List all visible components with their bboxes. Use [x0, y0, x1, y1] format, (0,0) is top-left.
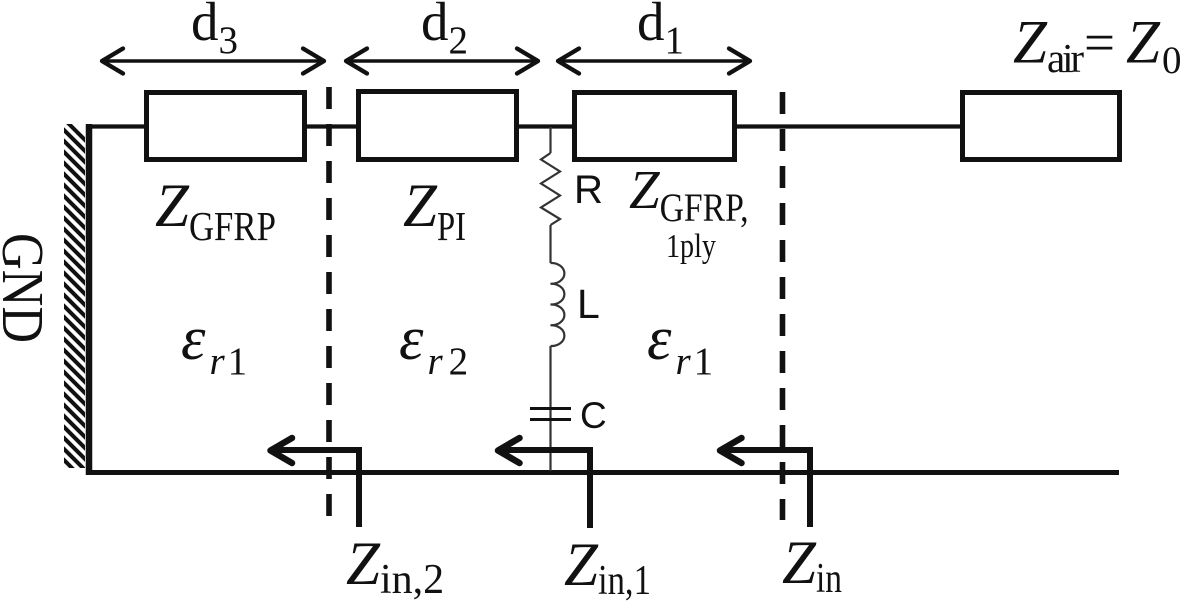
svg-text:Z: Z — [1013, 10, 1048, 77]
capacitor C plates — [530, 407, 571, 410]
resistor R — [541, 153, 560, 225]
wire R to L — [549, 225, 551, 263]
wire left vertical (wall face) — [86, 124, 93, 475]
dimension arrow d1 — [558, 49, 750, 74]
svg-text:1ply: 1ply — [666, 228, 716, 265]
svg-text:L: L — [577, 281, 600, 327]
svg-text:=: = — [1084, 12, 1115, 73]
impedance arrow hook Z_in,1 — [498, 438, 590, 528]
svg-text:0: 0 — [1162, 39, 1181, 82]
ground wall GND hatch — [50, 105, 100, 496]
dashed boundary line 2 — [780, 92, 786, 520]
block Z_PI (transmission-line section 2) — [359, 92, 517, 160]
wire L to C to bottom — [549, 346, 551, 471]
svg-text:Z: Z — [1126, 10, 1161, 77]
dimension arrow d3 — [102, 49, 324, 74]
dimension arrow d2 — [346, 49, 538, 74]
block Z_air — [963, 93, 1120, 160]
inductor L — [551, 263, 565, 346]
wire RLC branch top stub — [549, 127, 551, 153]
impedance arrow hook Z_in,2 — [271, 438, 360, 527]
wire top horizontal — [87, 124, 960, 128]
block Z_GFRP (transmission-line section 3) — [147, 93, 305, 160]
dashed boundary line 1 — [326, 87, 332, 518]
svg-text:R: R — [574, 168, 603, 212]
block Z_GFRP,1ply (transmission-line section 1) — [575, 93, 735, 160]
svg-text:air: air — [1047, 35, 1084, 81]
svg-text:C: C — [580, 395, 607, 436]
impedance arrow hook Z_in — [720, 438, 810, 527]
svg-text:GND: GND — [0, 233, 56, 343]
wire bottom return line — [87, 470, 1119, 475]
